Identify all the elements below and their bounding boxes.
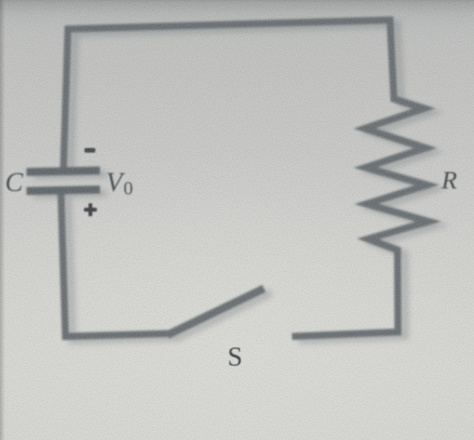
switch S blade [168, 289, 265, 336]
wire: below capacitor, bottom-left corner, bottom-left run [61, 193, 170, 337]
minus sign [85, 148, 96, 153]
capacitor C bottom plate [27, 190, 101, 192]
wire: left top riser, top run, right riser into resistor, zigzag, right drop, bottom-right run [64, 20, 429, 337]
plus sign [84, 203, 97, 216]
wire shadow (photo ghost) [34, 24, 436, 341]
capacitor C top plate [27, 171, 101, 173]
